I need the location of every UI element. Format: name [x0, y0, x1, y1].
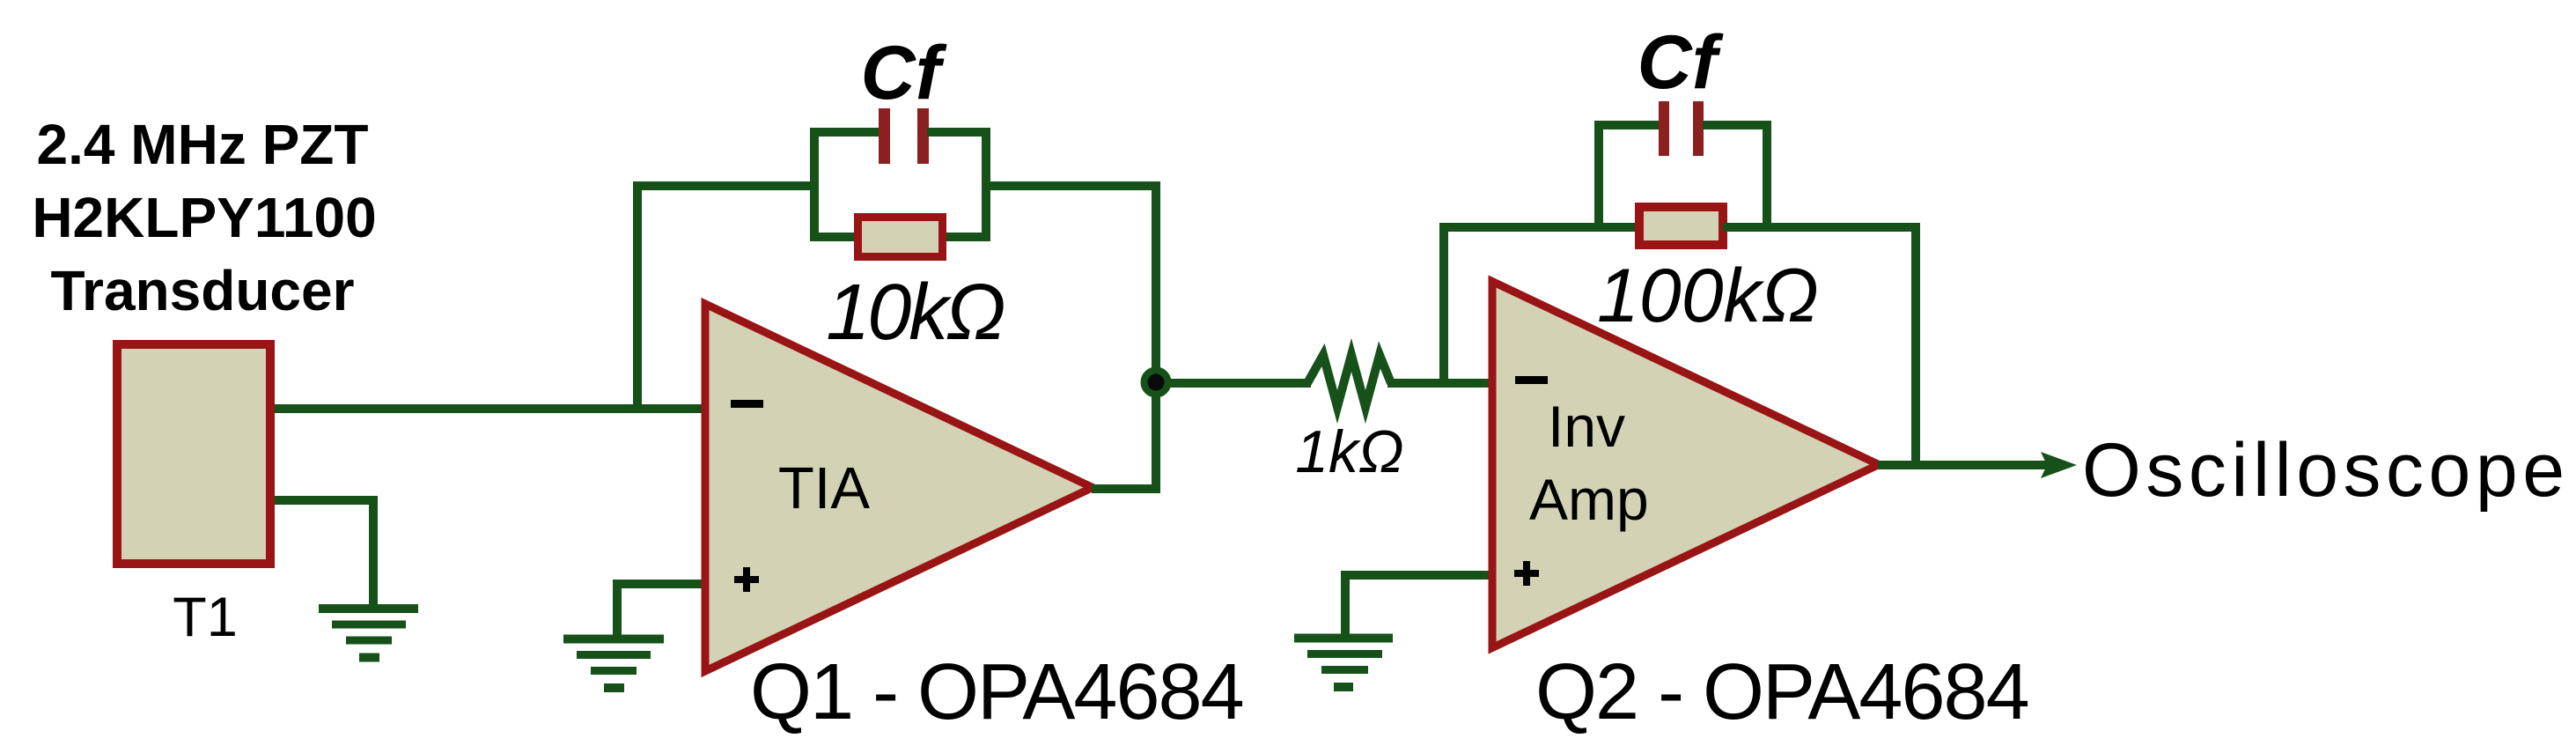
- minus pin Q1: [731, 400, 763, 408]
- wire: Q1 output vertical up to node: [1152, 382, 1160, 489]
- wire: Q1 feedback top-left horizontal: [633, 181, 819, 190]
- wire: parallel box left vertical: [810, 128, 819, 241]
- wire: capacitor branch left lead: [810, 128, 880, 137]
- transducer annotation text: [32, 113, 376, 322]
- svg-text:Inv: Inv: [1548, 394, 1625, 459]
- wire: Q2 feedback left horizontal: [1439, 223, 1639, 232]
- svg-text:H2KLPY1100: H2KLPY1100: [32, 186, 376, 249]
- wire: Q1 feedback top-right horizontal: [982, 181, 1160, 190]
- wire: node to 1k resistor: [1156, 379, 1311, 388]
- svg-text:Amp: Amp: [1529, 467, 1649, 532]
- wire: Q2 cap box left vertical: [1594, 121, 1603, 232]
- resistor 100k (stage 2 feedback): [1639, 207, 1723, 245]
- svg-text:Cf: Cf: [1638, 20, 1724, 105]
- wire: Q2 output to oscilloscope: [1878, 461, 2049, 469]
- svg-text:T1: T1: [173, 587, 238, 648]
- wire: Q2 capacitor left lead: [1594, 121, 1659, 129]
- svg-text:Cf: Cf: [861, 31, 947, 115]
- wire: Q1 plus input to ground: [617, 580, 705, 639]
- wire: resistor branch left lead: [810, 233, 858, 241]
- wire: Q2 plus input to ground: [1345, 571, 1496, 639]
- wire: capacitor branch right lead: [927, 128, 990, 137]
- svg-text:1kΩ: 1kΩ: [1295, 418, 1404, 485]
- resistor 1k (series): [1307, 355, 1391, 407]
- ground (Q1 non-inverting input): [563, 635, 664, 693]
- svg-text:Transducer: Transducer: [50, 259, 354, 322]
- plus pin Q2: [1514, 561, 1539, 586]
- wire: parallel box right vertical: [982, 128, 990, 241]
- svg-text:100kΩ: 100kΩ: [1597, 254, 1819, 338]
- op-amp Q2: [1492, 282, 1879, 648]
- svg-text:10kΩ: 10kΩ: [826, 269, 1004, 357]
- capacitor Cf (stage 1): [879, 108, 929, 164]
- wire: Q2 cap box right vertical: [1763, 121, 1771, 232]
- capacitor Cf (stage 2): [1659, 101, 1704, 156]
- resistor 10k (stage 1 feedback): [858, 218, 943, 257]
- wire: Q2 capacitor right lead: [1703, 121, 1771, 129]
- wire: Q1 feedback right vertical down to node: [1152, 181, 1160, 382]
- minus pin Q2: [1515, 376, 1548, 384]
- transducer T1: [117, 344, 270, 564]
- plus pin Q1: [734, 567, 759, 592]
- wire: Q1 output horizontal: [1092, 484, 1160, 493]
- wire: resistor branch right lead: [942, 233, 990, 241]
- wire: T1 bottom pin to ground: [269, 496, 373, 609]
- svg-text:Q1 - OPA4684: Q1 - OPA4684: [750, 648, 1243, 736]
- svg-text:TIA: TIA: [778, 455, 871, 521]
- wire: Q1 feedback left vertical: [633, 181, 642, 411]
- wire: Q2 feedback right vertical down to output: [1911, 223, 1920, 469]
- wire: T1 output to Q1 inverting input: [269, 404, 705, 413]
- wire: Q2 feedback right horizontal: [1723, 223, 1920, 232]
- svg-text:2.4 MHz PZT: 2.4 MHz PZT: [37, 113, 369, 176]
- wire: 1k resistor to Q2 inverting input: [1387, 379, 1496, 388]
- arrowhead to oscilloscope: [2041, 452, 2077, 478]
- wire: Q2 feedback left vertical: [1439, 223, 1448, 388]
- ground (Q2 non-inverting input): [1294, 634, 1393, 692]
- svg-text:Q2 - OPA4684: Q2 - OPA4684: [1535, 648, 2028, 736]
- op-amp Q1: [705, 304, 1093, 671]
- node: Q1 output junction: [1144, 371, 1168, 395]
- ground (transducer): [319, 604, 418, 662]
- svg-text:Oscilloscope: Oscilloscope: [2082, 428, 2570, 513]
